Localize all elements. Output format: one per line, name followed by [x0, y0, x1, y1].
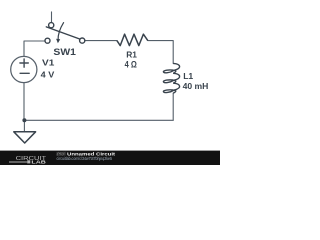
- svg-text:4 Ω: 4 Ω: [125, 60, 137, 70]
- wire resistor to top-right corner and down to inductor: [148, 41, 173, 64]
- footer text: [57, 152, 116, 161]
- footer CircuitLab logo: [9, 156, 47, 166]
- footer bar: [0, 151, 220, 165]
- switch arrowhead: [56, 39, 60, 44]
- svg-text:L1: L1: [183, 71, 193, 81]
- inductor L1: [163, 63, 179, 93]
- resistor R1: [117, 34, 148, 45]
- svg-text:R1: R1: [126, 49, 137, 59]
- wire V1 bottom lead: [23, 83, 25, 121]
- node junction: [22, 118, 26, 122]
- voltage source V1: [11, 56, 37, 82]
- wire switch to resistor: [85, 40, 117, 42]
- svg-text:40 mH: 40 mH: [183, 81, 209, 91]
- wire ground stub: [23, 120, 25, 132]
- svg-text:circuitlab.com/c/34w7t47bhjnq2: circuitlab.com/c/34w7t47bhjnq2ke5: [57, 156, 113, 161]
- svg-text:V1: V1: [42, 58, 55, 68]
- wire bottom rail: [24, 119, 173, 121]
- switch SW1: [45, 12, 85, 43]
- svg-text:LAB: LAB: [31, 159, 46, 165]
- wire inductor bottom to bottom-right corner: [172, 93, 174, 120]
- ground: [14, 132, 36, 143]
- svg-text:4 V: 4 V: [41, 69, 55, 79]
- wire V1 top lead to switch: [24, 41, 45, 57]
- svg-text:SW1: SW1: [53, 47, 76, 58]
